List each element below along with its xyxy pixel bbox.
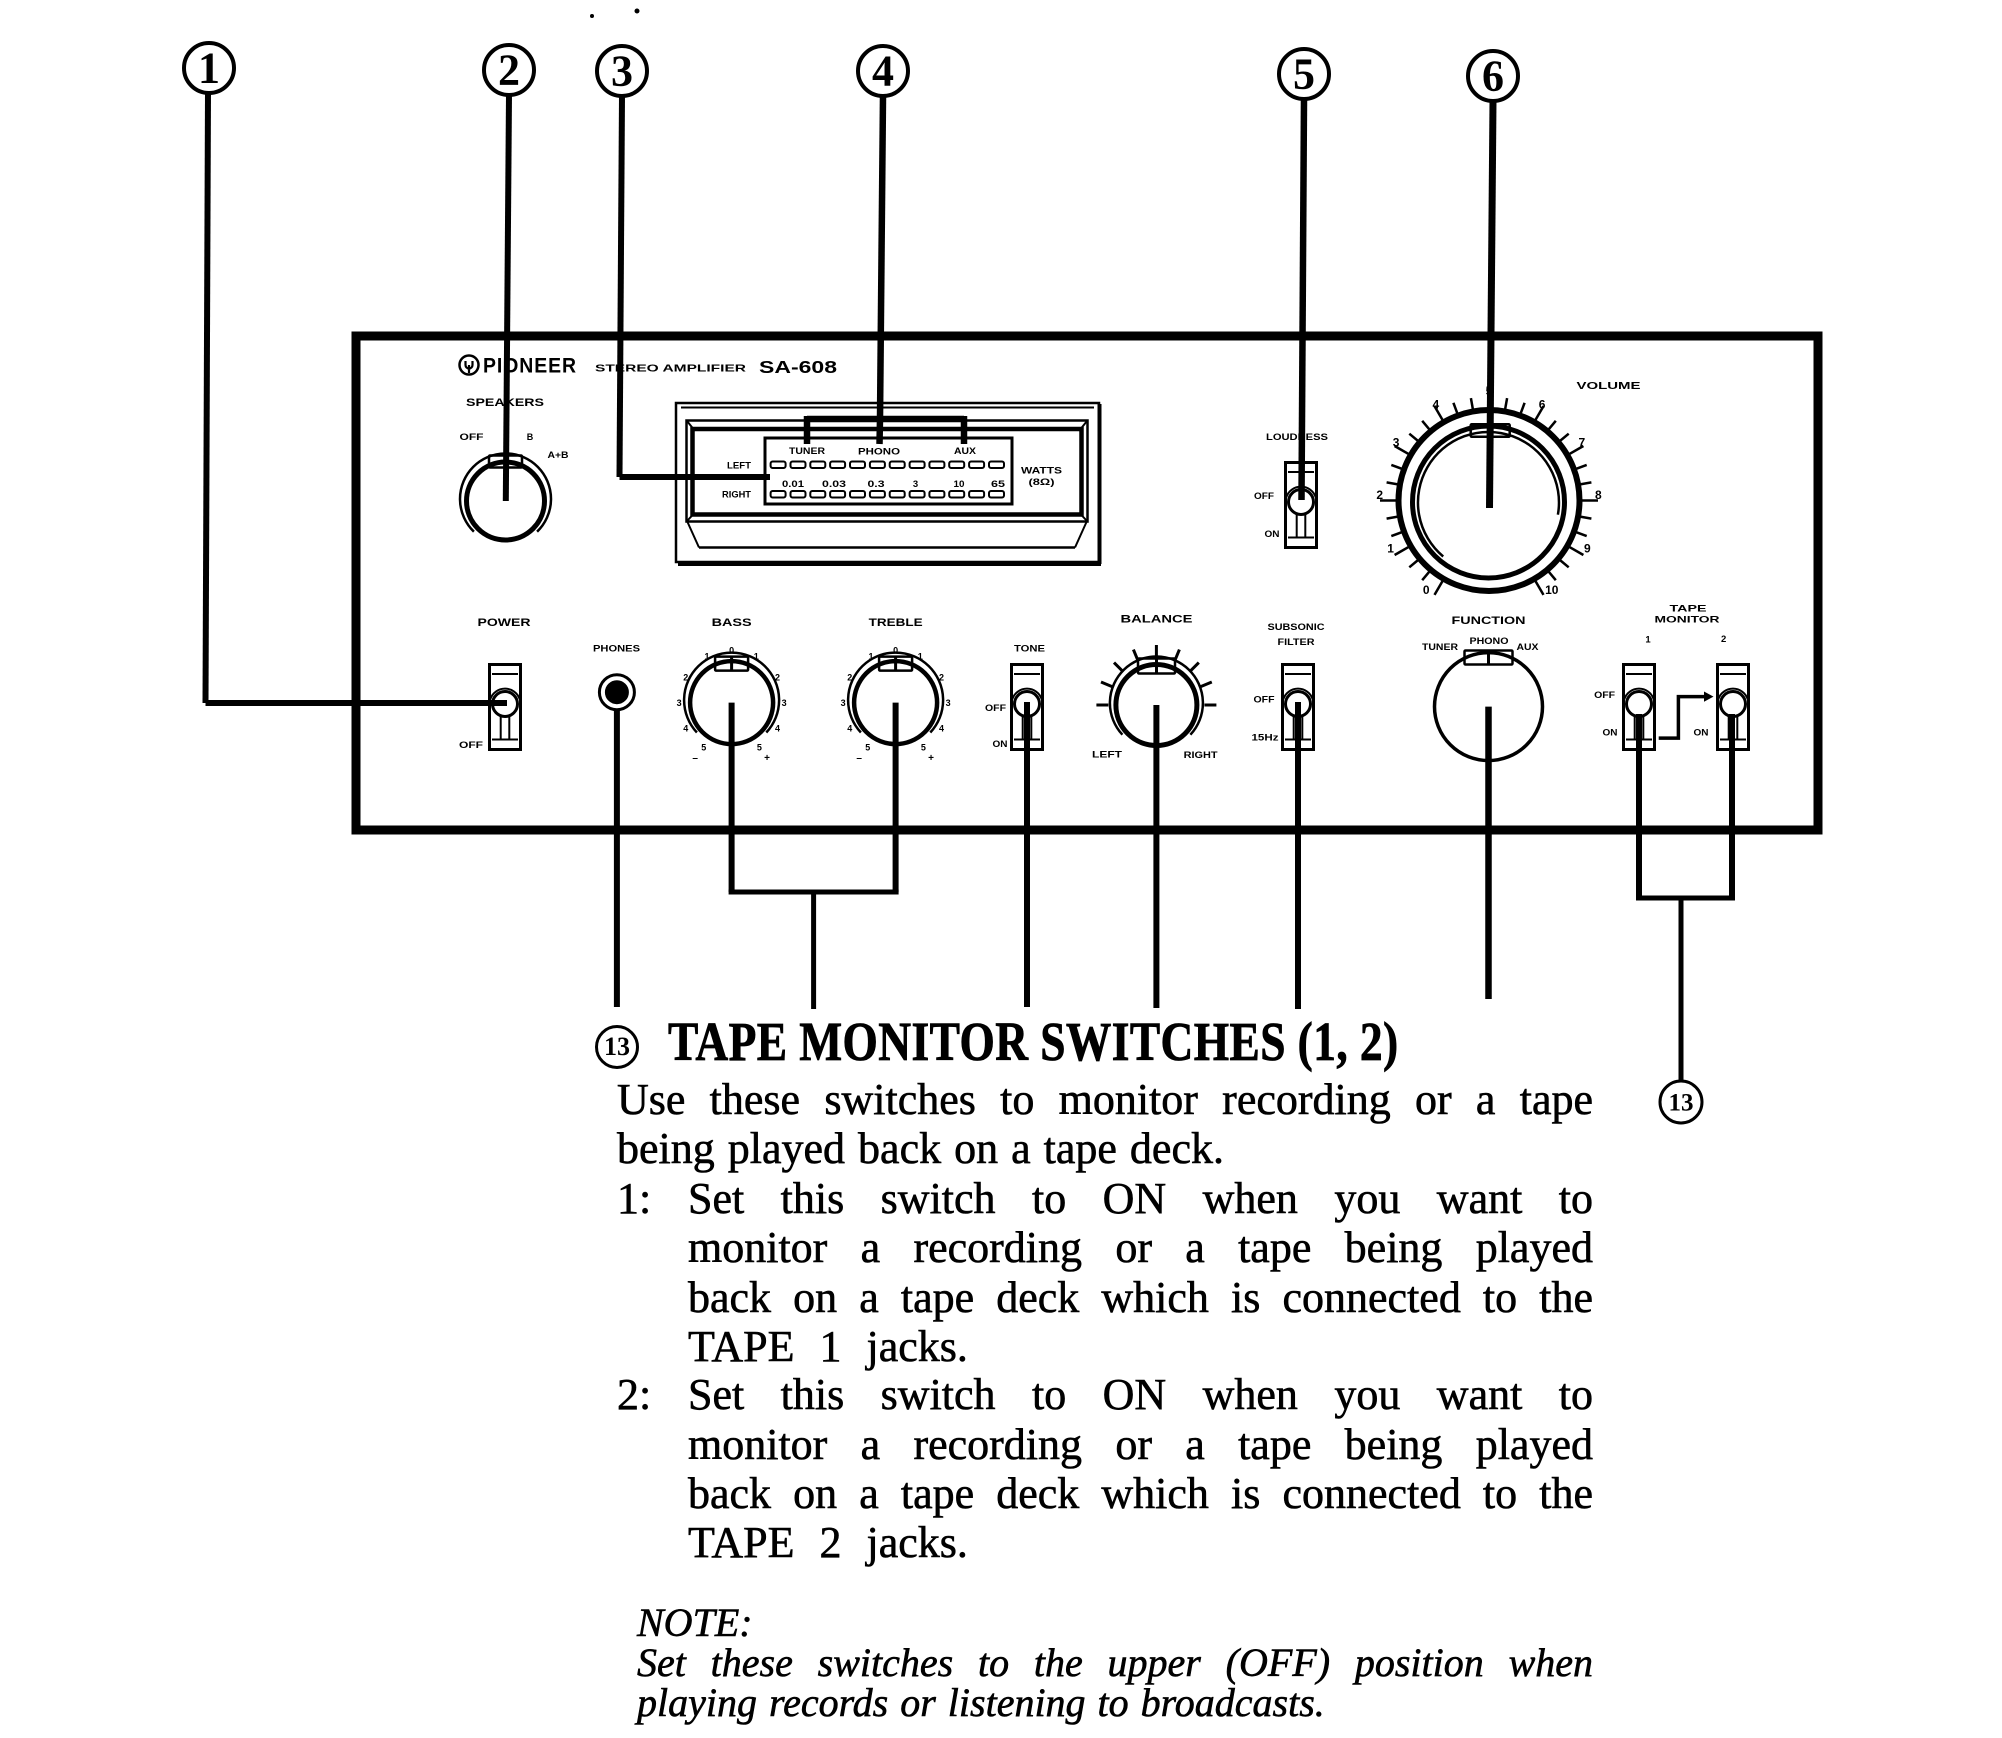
svg-text:7: 7: [1579, 436, 1586, 450]
tape monitor switch 1: [1624, 665, 1655, 750]
phones jack: [599, 675, 634, 710]
subsonic OFF 15Hz labels: [1252, 695, 1280, 743]
svg-text:OFF: OFF: [1254, 695, 1276, 705]
svg-text:PIONEER: PIONEER: [483, 355, 577, 378]
svg-text:1: 1: [868, 651, 873, 661]
svg-text:TUNER: TUNER: [1422, 642, 1459, 652]
svg-text:6: 6: [1539, 398, 1546, 412]
svg-text:2: 2: [1721, 634, 1726, 645]
tape monitor OFF ON labels: [1594, 690, 1708, 738]
leader line balance: [1153, 705, 1159, 1008]
svg-text:2: 2: [1376, 488, 1383, 502]
svg-text:65: 65: [991, 479, 1006, 490]
svg-text:A+B: A+B: [548, 450, 570, 460]
svg-text:AUX: AUX: [954, 446, 976, 456]
svg-text:RIGHT: RIGHT: [1184, 750, 1219, 760]
balance LEFT RIGHT labels: [1092, 750, 1218, 761]
svg-text:0: 0: [893, 645, 898, 655]
svg-text:WATTS: WATTS: [1021, 466, 1062, 477]
svg-text:ON: ON: [1603, 728, 1618, 738]
display inner segments box: [765, 438, 1012, 504]
leader line 5: [1302, 99, 1305, 500]
callout 4: [858, 46, 908, 96]
svg-text:OFF: OFF: [985, 703, 1007, 713]
svg-text:4: 4: [1433, 398, 1440, 412]
display window bezel: [676, 403, 1101, 564]
function source labels: [1422, 636, 1539, 652]
svg-text:2: 2: [939, 672, 944, 682]
svg-text:3: 3: [1393, 436, 1400, 450]
loudness OFF ON labels: [1254, 491, 1280, 539]
leader line 6: [1490, 101, 1494, 508]
svg-text:3: 3: [841, 698, 846, 708]
svg-text:0: 0: [729, 645, 734, 655]
power switch: [490, 665, 521, 750]
svg-text:2: 2: [498, 46, 520, 95]
svg-text:3: 3: [782, 698, 787, 708]
svg-text:0.01: 0.01: [782, 479, 805, 490]
display segment row right: [771, 491, 1004, 498]
svg-text:1: 1: [754, 651, 759, 661]
leader line 2: [506, 95, 509, 501]
svg-text:9: 9: [1584, 542, 1591, 556]
svg-text:6: 6: [1482, 52, 1504, 101]
callout 13 right: [1660, 1081, 1702, 1123]
callout 5: [1279, 49, 1329, 99]
svg-text:2: 2: [683, 672, 688, 682]
svg-text:AUX: AUX: [1517, 642, 1539, 652]
function knob: [1435, 651, 1543, 761]
svg-text:5: 5: [1293, 50, 1315, 99]
svg-text:OFF: OFF: [459, 740, 484, 750]
svg-text:15Hz: 15Hz: [1252, 733, 1280, 743]
svg-text:4: 4: [847, 723, 852, 733]
svg-text:4: 4: [683, 723, 688, 733]
svg-text:1: 1: [918, 651, 923, 661]
leader line 1: [206, 93, 508, 703]
svg-text:5: 5: [701, 742, 706, 752]
svg-text:BALANCE: BALANCE: [1121, 614, 1193, 626]
display watt scale numbers: [782, 479, 1006, 490]
volume knob: [1376, 384, 1602, 597]
svg-text:OFF: OFF: [460, 432, 485, 442]
svg-text:SA-608: SA-608: [759, 357, 837, 377]
bass knob: [677, 645, 787, 764]
svg-text:RIGHT: RIGHT: [722, 490, 752, 500]
svg-text:TAPE: TAPE: [1670, 604, 1707, 615]
leader line subsonic: [1295, 702, 1301, 1009]
svg-text:5: 5: [921, 742, 926, 752]
svg-text:3: 3: [677, 698, 682, 708]
svg-text:STEREO AMPLIFIER: STEREO AMPLIFIER: [595, 363, 747, 375]
svg-text:8: 8: [1595, 488, 1602, 502]
svg-text:–: –: [692, 753, 698, 764]
svg-text:TONE: TONE: [1014, 644, 1045, 655]
treble knob: [841, 645, 951, 764]
svg-text:OFF: OFF: [1594, 690, 1616, 700]
svg-text:TUNER: TUNER: [789, 446, 826, 456]
tone OFF ON labels: [985, 703, 1008, 749]
svg-text:TREBLE: TREBLE: [869, 617, 923, 629]
svg-text:1: 1: [198, 44, 220, 93]
tape monitor switch 2: [1718, 665, 1749, 750]
leader line phones: [614, 709, 620, 1007]
subsonic filter switch: [1283, 665, 1314, 750]
svg-text:LEFT: LEFT: [1092, 750, 1123, 760]
svg-text:5: 5: [1486, 384, 1493, 398]
leader line 3: [620, 96, 771, 477]
SUBSONIC FILTER label: [1268, 622, 1325, 648]
leader line function: [1485, 707, 1492, 999]
svg-text:0.3: 0.3: [868, 479, 885, 490]
svg-text:SUBSONIC: SUBSONIC: [1268, 622, 1325, 633]
display source labels: [789, 446, 976, 457]
svg-text:+: +: [764, 753, 770, 764]
svg-text:0.03: 0.03: [822, 479, 846, 490]
svg-text:–: –: [856, 753, 862, 764]
svg-text:0: 0: [1423, 583, 1430, 597]
svg-text:2: 2: [847, 672, 852, 682]
svg-text:PHONO: PHONO: [1470, 636, 1509, 646]
tone defeat switch: [1012, 665, 1043, 750]
leader lines tape monitor: [1636, 714, 1735, 1081]
noise specks: [590, 9, 640, 19]
svg-text:3: 3: [946, 698, 951, 708]
leader line 4: [807, 96, 964, 444]
svg-text:3: 3: [611, 47, 633, 96]
svg-text:LEFT: LEFT: [727, 461, 752, 471]
svg-text:(8Ω): (8Ω): [1029, 477, 1055, 488]
amplifier front panel frame: [356, 336, 1818, 830]
callout 3: [597, 46, 647, 96]
svg-text:3: 3: [913, 479, 918, 490]
svg-text:10: 10: [1545, 583, 1559, 597]
svg-text:PHONO: PHONO: [858, 447, 900, 457]
svg-text:FUNCTION: FUNCTION: [1452, 615, 1526, 627]
balance knob: [1096, 645, 1216, 746]
svg-text:OFF: OFF: [1254, 491, 1275, 501]
speakers selector knob: [460, 453, 551, 540]
svg-text:PHONES: PHONES: [593, 644, 640, 655]
callout 2: [484, 45, 534, 95]
svg-text:ON: ON: [1265, 529, 1280, 539]
callout 6: [1468, 51, 1518, 101]
leader line bass-treble join: [729, 703, 899, 1009]
svg-text:BASS: BASS: [712, 617, 752, 629]
svg-text:VOLUME: VOLUME: [1577, 381, 1641, 392]
TAPE MONITOR label: [1645, 604, 1726, 646]
svg-text:FILTER: FILTER: [1278, 637, 1315, 648]
svg-text:13: 13: [1669, 1090, 1694, 1117]
svg-text:MONITOR: MONITOR: [1655, 615, 1720, 626]
svg-text:B: B: [527, 432, 534, 442]
svg-text:5: 5: [865, 742, 870, 752]
svg-text:1: 1: [1387, 542, 1394, 556]
svg-text:5: 5: [757, 742, 762, 752]
svg-text:2: 2: [775, 672, 780, 682]
svg-text:1: 1: [704, 651, 709, 661]
callout 1: [184, 43, 234, 93]
svg-text:ON: ON: [1694, 728, 1709, 738]
speakers position labels: [460, 432, 570, 460]
svg-text:1: 1: [1645, 635, 1651, 646]
svg-text:+: +: [928, 753, 934, 764]
Pioneer logo mark: [460, 356, 479, 375]
svg-text:4: 4: [939, 723, 944, 733]
display segment row left: [771, 462, 1004, 469]
svg-text:4: 4: [775, 723, 780, 733]
svg-text:LOUDNESS: LOUDNESS: [1266, 432, 1328, 443]
svg-text:SPEAKERS: SPEAKERS: [466, 397, 544, 409]
svg-text:ON: ON: [993, 739, 1008, 749]
tape monitor direction arrow: [1659, 692, 1714, 739]
leader line tone: [1024, 702, 1030, 1007]
WATTS (8 ohm) label: [1021, 466, 1062, 489]
loudness switch: [1286, 463, 1317, 548]
svg-text:4: 4: [872, 47, 894, 96]
svg-text:10: 10: [954, 479, 965, 490]
svg-text:POWER: POWER: [478, 617, 531, 629]
